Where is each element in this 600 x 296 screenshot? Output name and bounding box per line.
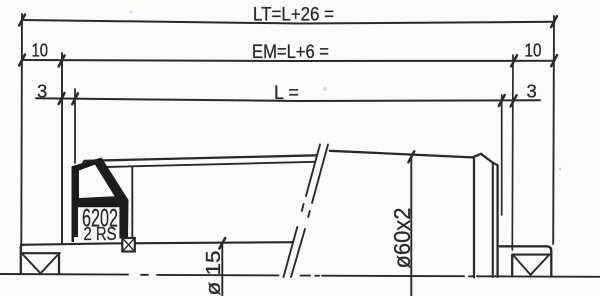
svg-text:EM=L+6 =: EM=L+6 =: [252, 42, 329, 63]
svg-text:10: 10: [525, 41, 542, 61]
svg-text:10: 10: [32, 40, 49, 60]
svg-text:L =: L =: [274, 83, 299, 104]
svg-text:2 RS: 2 RS: [84, 224, 117, 244]
svg-text:ø 15: ø 15: [203, 251, 225, 296]
svg-text:3: 3: [37, 80, 47, 101]
svg-text:3: 3: [527, 81, 537, 102]
svg-text:LT=L+26 =: LT=L+26 =: [253, 5, 334, 26]
svg-text:ø60x2: ø60x2: [389, 208, 415, 269]
